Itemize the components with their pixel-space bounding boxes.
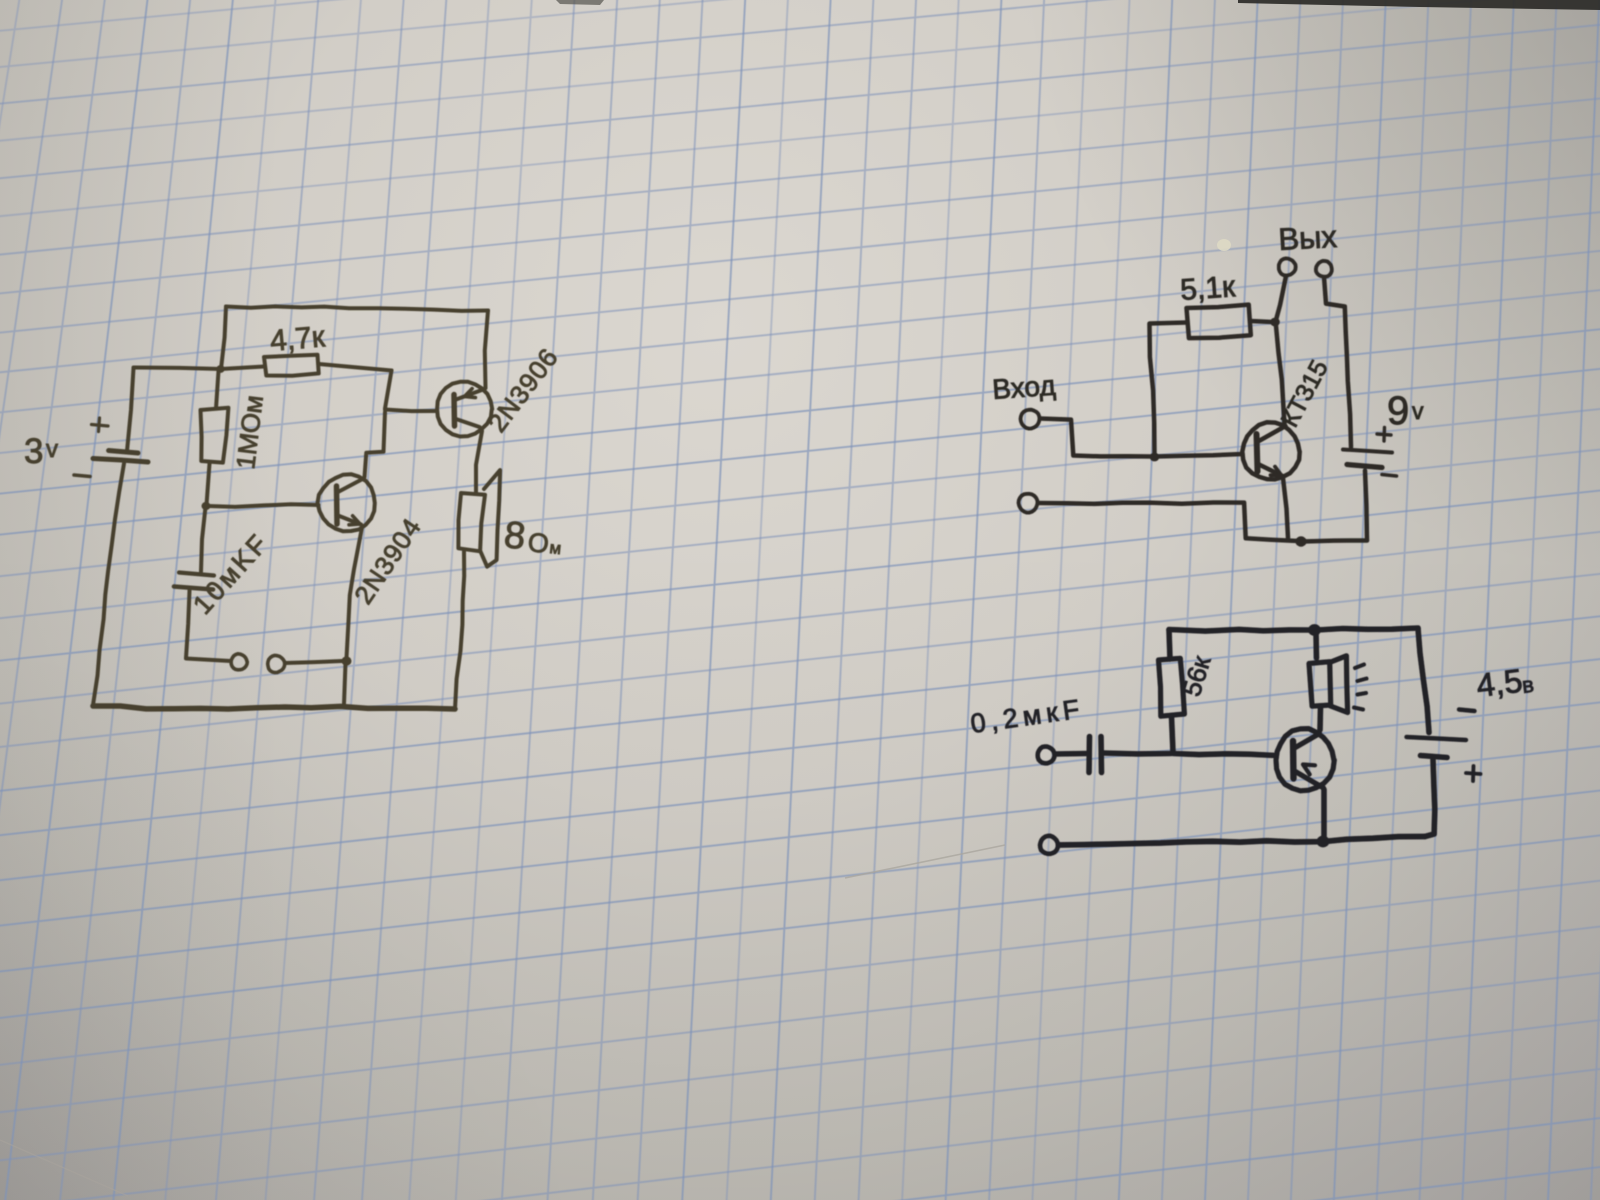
node D junction dot bbox=[1270, 318, 1280, 327]
transistor Q1 2N3904 circle bbox=[318, 474, 375, 531]
node A junction dot bbox=[216, 365, 224, 373]
transistor Q4 circle bbox=[1276, 729, 1334, 791]
svg-text:5,1к: 5,1к bbox=[1179, 270, 1237, 307]
wire Q2 base node down to Q1 collector bbox=[365, 412, 386, 477]
transistor Q3 collector stroke bbox=[1258, 426, 1286, 442]
capacitor C2 0.2mkF plates bbox=[1089, 737, 1102, 773]
wire node G to Q4 base bbox=[1173, 754, 1276, 756]
wire right side down to Q2 emitter bbox=[485, 311, 488, 389]
wire node H down to speaker LS2 bbox=[1313, 633, 1319, 658]
paper edge shadow bbox=[1238, 0, 1600, 10]
speaker LS2 body bbox=[1309, 662, 1331, 707]
battery B1 3v bbox=[93, 451, 148, 463]
wire to transistor Q2 base bbox=[385, 410, 436, 412]
wire node B down to bottom rail bbox=[344, 663, 346, 704]
svg-text:О: О bbox=[526, 527, 550, 559]
terminal T1 (open contact) bbox=[231, 654, 247, 670]
paper speck bbox=[1217, 239, 1231, 251]
wire bottom rail bbox=[93, 706, 455, 709]
svg-text:Вход: Вход bbox=[991, 370, 1056, 405]
label 4,5 в (battery B3 voltage) bbox=[1474, 662, 1535, 704]
wire Q1 emitter down to node B bbox=[347, 528, 363, 659]
svg-text:Вых: Вых bbox=[1278, 219, 1339, 257]
wire node H to top-right corner bbox=[1317, 628, 1418, 630]
wire left rail to R3 lead bbox=[1150, 323, 1187, 324]
terminal T2 (open contact) bbox=[268, 655, 285, 672]
terminal T5 Вход bbox=[1021, 410, 1040, 429]
transistor Q4 base bar bbox=[1290, 741, 1297, 779]
transistor Q3 KT315 circle bbox=[1242, 422, 1299, 479]
node I junction dot bbox=[1317, 836, 1330, 848]
wire top-left horizontal to node A bbox=[134, 368, 222, 370]
wire C1 down to corner bbox=[186, 591, 190, 659]
label 9v (battery B2 voltage) bbox=[1387, 389, 1424, 433]
speaker LS2 sound dashes bbox=[1354, 665, 1367, 710]
wire node F to battery B2 minus bbox=[1303, 541, 1367, 542]
wire corner to terminal T1 bbox=[186, 659, 231, 662]
svg-text:v: v bbox=[46, 436, 58, 463]
label + (battery B1 plus) bbox=[92, 418, 109, 432]
wire T4 down to battery B2 plus rail bbox=[1324, 277, 1351, 447]
transistor Q1 collector stroke bbox=[338, 479, 364, 493]
transistor Q4 collector stroke bbox=[1295, 734, 1320, 749]
transistor Q4 emitter stroke with arrow bbox=[1295, 765, 1324, 789]
label - (battery B1 minus) bbox=[74, 475, 90, 477]
speaker LS1 body bbox=[458, 493, 485, 551]
resistor R4 56k body bbox=[1159, 658, 1185, 716]
transistor Q2 emitter stroke with arrow bbox=[456, 389, 485, 400]
label - (battery B3 minus) bbox=[1459, 710, 1475, 712]
resistor R3 5.1k body bbox=[1187, 305, 1251, 339]
wire up to battery B2 bottom plate bbox=[1365, 471, 1367, 541]
wire Q4 emitter down to node I bbox=[1321, 790, 1327, 837]
wire C2 to node G bbox=[1103, 750, 1171, 757]
transistor Q1 emitter stroke with arrow bbox=[338, 516, 361, 525]
wire Q1 base to node C bbox=[208, 504, 319, 507]
wire corner up to battery B3 plus bbox=[1425, 760, 1435, 837]
wire top rail to node H bbox=[1169, 629, 1312, 631]
svg-text:8: 8 bbox=[502, 514, 527, 558]
terminal T4 output 2 bbox=[1316, 261, 1332, 277]
wire terminal T2 to node B bbox=[285, 661, 342, 663]
label + (battery B2 plus) bbox=[1377, 428, 1391, 442]
wire bottom rail T8 to corner bbox=[1059, 837, 1426, 846]
transistor Q2 2N3906 circle bbox=[437, 382, 492, 437]
label 3v (battery voltage) bbox=[24, 432, 58, 471]
transistor Q2 base bar bbox=[451, 395, 457, 427]
wire bottom-right corner up to speaker LS1 bbox=[455, 552, 464, 710]
transistor Q1 base bar bbox=[334, 486, 340, 524]
capacitor C1 10mkF plates bbox=[174, 573, 214, 590]
svg-text:9: 9 bbox=[1387, 389, 1409, 433]
speaker LS2 cone bbox=[1330, 656, 1348, 713]
wire battery- down to bottom-left corner bbox=[93, 464, 124, 706]
wire R1 right lead to corner bbox=[319, 364, 392, 371]
battery B3 4.5v plates bbox=[1407, 737, 1467, 758]
wire Q2 collector down to speaker top bbox=[476, 431, 482, 493]
wire top rail bbox=[226, 306, 488, 311]
svg-text:м: м bbox=[549, 538, 563, 558]
label - (battery B2 minus) bbox=[1382, 475, 1397, 477]
terminal T3 output 1 bbox=[1279, 258, 1296, 275]
wire LS2 bottom to Q4 collector bbox=[1317, 708, 1323, 731]
terminal T7 input 1 bbox=[1038, 747, 1055, 764]
node B junction dot bbox=[342, 656, 352, 665]
label 8Ом (LS1 impedance) bbox=[502, 514, 562, 559]
wire corner down to Q2 base node bbox=[385, 371, 392, 409]
node C junction dot bbox=[202, 502, 211, 510]
wire T7 to capacitor C2 bbox=[1055, 751, 1086, 757]
wire R4 top lead bbox=[1169, 630, 1170, 659]
wire node E to Q3 base bbox=[1156, 454, 1243, 457]
wire node A down to resistor R2 bbox=[216, 371, 219, 409]
wire Q3 emitter down to node F bbox=[1283, 478, 1288, 538]
wire input T5 to node E bbox=[1040, 419, 1153, 457]
wire node A to resistor R1 lead bbox=[221, 367, 264, 370]
wire T3 down to node D bbox=[1276, 276, 1286, 320]
speaker LS1 cone bbox=[481, 470, 501, 566]
resistor R2 1MOm body bbox=[201, 408, 229, 463]
transistor Q3 emitter stroke with arrow bbox=[1258, 464, 1283, 476]
wire battery+ to top-left corner bbox=[127, 368, 134, 451]
svg-text:4,5: 4,5 bbox=[1474, 662, 1524, 704]
resistor R1 4.7k body bbox=[264, 355, 319, 376]
terminal T8 input 2 bbox=[1040, 836, 1058, 854]
node F junction dot bbox=[1295, 536, 1306, 546]
wire battery B3 top plate up to top rail bbox=[1418, 629, 1429, 733]
wire left rail vertical bbox=[1150, 325, 1155, 456]
node E junction dot bbox=[1150, 453, 1160, 462]
svg-text:3: 3 bbox=[24, 432, 43, 471]
node H junction dot bbox=[1308, 624, 1321, 636]
transistor Q2 collector stroke bbox=[456, 419, 480, 427]
wire R2 bottom lead to node C bbox=[207, 464, 210, 506]
wire node D down to Q3 collector bbox=[1276, 326, 1285, 425]
wire T6 to node F bbox=[1038, 503, 1298, 542]
wire R4 bottom lead to node G bbox=[1172, 717, 1174, 753]
wire node C down to capacitor C1 bbox=[201, 507, 206, 572]
terminal T6 input 2 bbox=[1019, 494, 1038, 513]
transistor Q3 base bar bbox=[1257, 434, 1258, 472]
svg-text:4,7к: 4,7к bbox=[269, 320, 327, 358]
label + (battery B3 plus) bbox=[1466, 766, 1481, 781]
battery B2 9v plates bbox=[1343, 450, 1392, 468]
wire R3 right lead to node D bbox=[1251, 321, 1273, 322]
svg-text:v: v bbox=[1412, 398, 1424, 424]
faint scratch on paper bbox=[845, 845, 1005, 878]
wire node A up to top rail corner bbox=[221, 307, 226, 370]
